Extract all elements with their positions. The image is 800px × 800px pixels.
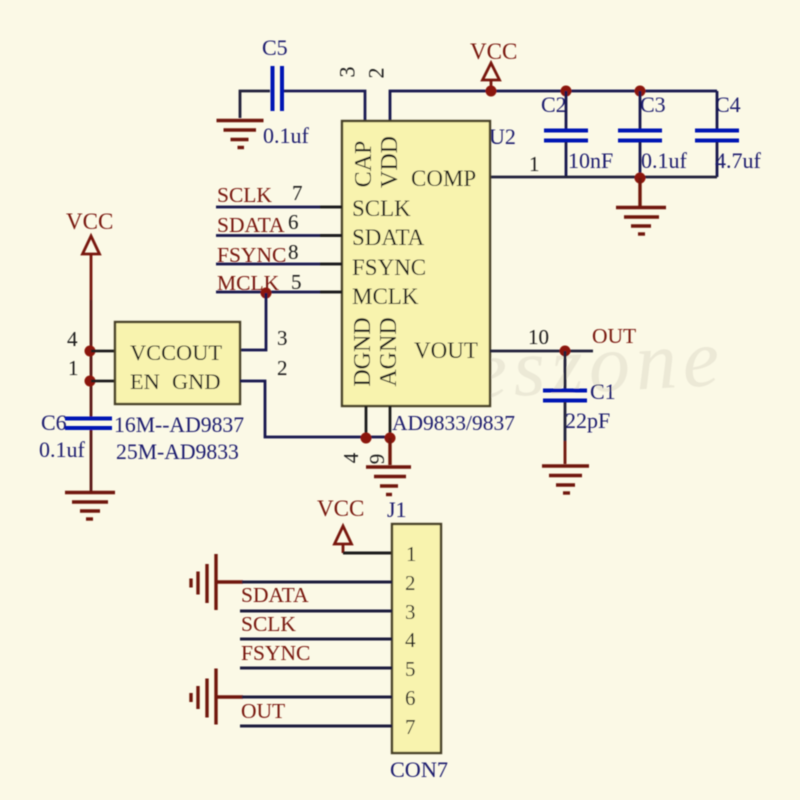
junction dot C3 top: [635, 86, 646, 97]
svg-text:C2: C2: [541, 92, 567, 117]
wire VCC to J1 pin1: [343, 552, 392, 555]
wire J1 pin7: [240, 725, 392, 728]
svg-text:AD9833/9837: AD9833/9837: [392, 411, 515, 435]
capacitor C5 plates: [273, 66, 283, 111]
VCC J1 power symbol: [335, 526, 352, 553]
wire J1 pin3: [240, 610, 392, 613]
wire C1 to ground: [564, 402, 567, 441]
wire FSYNC: [216, 263, 342, 266]
svg-text:VCCOUT: VCCOUT: [130, 340, 222, 365]
wire C5 left: [240, 91, 270, 118]
svg-text:VCC: VCC: [317, 496, 364, 521]
svg-text:C3: C3: [640, 92, 666, 117]
svg-text:FSYNC: FSYNC: [241, 641, 310, 665]
svg-text:2: 2: [277, 356, 288, 380]
VCC top power symbol: [483, 63, 500, 91]
wire VCCOUT pin2 to AGND: [240, 381, 390, 437]
wire AGND stub: [389, 406, 392, 437]
svg-text:9: 9: [365, 454, 389, 465]
wire C6 to ground: [90, 430, 93, 491]
wire VDD pin2 to top rail: [390, 91, 717, 121]
svg-text:C4: C4: [715, 92, 741, 117]
wire DGND stub: [365, 406, 368, 437]
svg-text:1: 1: [68, 356, 79, 380]
junction dot MCLK: [261, 288, 272, 299]
regulator body VCCOUT/EN/GND: [115, 322, 240, 404]
ground sideways 1: [191, 554, 243, 610]
svg-text:3: 3: [405, 600, 416, 624]
ground at C1: [542, 466, 589, 493]
wire VCC vertical: [90, 300, 93, 417]
junction dot AGND: [385, 433, 396, 444]
svg-text:25M-AD9833: 25M-AD9833: [116, 440, 239, 464]
svg-text:OUT: OUT: [241, 699, 285, 723]
svg-text:0.1uf: 0.1uf: [641, 148, 688, 173]
svg-text:C1: C1: [590, 379, 616, 404]
svg-text:6: 6: [405, 686, 416, 710]
svg-text:10: 10: [528, 325, 549, 349]
wire pin4 stub: [91, 350, 115, 353]
junction dot VCCOUT pin4: [85, 346, 96, 357]
op-amp U2 AD9833 body: [342, 121, 490, 406]
svg-text:7: 7: [292, 181, 303, 205]
svg-text:VCC: VCC: [470, 39, 517, 64]
ground at C5: [217, 121, 264, 148]
svg-text:EN: EN: [130, 369, 160, 394]
junction dot DGND: [361, 433, 372, 444]
capacitor C3: [618, 91, 662, 177]
svg-text:SDATA: SDATA: [241, 583, 309, 607]
wire pin1 stub: [91, 380, 115, 383]
wire C5 to pin3: [284, 91, 365, 121]
capacitor C6: [65, 419, 112, 429]
svg-text:SCLK: SCLK: [241, 612, 296, 636]
svg-text:4: 4: [339, 452, 363, 463]
capacitor C4: [695, 91, 739, 177]
capacitor C2: [544, 91, 588, 177]
svg-text:2: 2: [405, 571, 416, 595]
svg-text:OUT: OUT: [592, 324, 636, 348]
wire MCLK: [216, 291, 342, 294]
svg-text:0.1uf: 0.1uf: [263, 123, 310, 148]
svg-text:VCC: VCC: [66, 209, 113, 234]
junction dot C2 top: [561, 86, 572, 97]
svg-text:5: 5: [291, 270, 302, 294]
svg-text:3: 3: [277, 326, 288, 350]
svg-text:CON7: CON7: [390, 757, 448, 782]
wire MCLK to VCCOUT pin3: [240, 293, 266, 350]
wire VOUT to C1: [564, 351, 567, 389]
junction dot VCCOUT pin1: [85, 376, 96, 387]
svg-text:C5: C5: [262, 35, 288, 60]
svg-text:4: 4: [405, 628, 416, 652]
VCC left power symbol: [83, 236, 100, 300]
svg-text:8: 8: [288, 240, 299, 264]
junction dot VCC top rail: [486, 86, 497, 97]
svg-text:SDATA: SDATA: [217, 213, 285, 237]
wire J1 pin4: [240, 638, 392, 641]
svg-text:1: 1: [406, 542, 417, 566]
svg-text:VDD: VDD: [377, 136, 403, 188]
svg-text:7: 7: [405, 715, 416, 739]
connector J1 body: [392, 524, 441, 753]
wire SDATA: [216, 234, 342, 237]
svg-text:2: 2: [364, 68, 389, 79]
svg-text:U2: U2: [489, 124, 516, 149]
svg-text:4: 4: [67, 327, 78, 351]
svg-text:J1: J1: [387, 497, 407, 522]
svg-text:4.7uf: 4.7uf: [715, 148, 762, 173]
svg-text:COMP: COMP: [411, 166, 476, 191]
svg-text:3: 3: [335, 67, 360, 78]
wire SCLK: [216, 206, 342, 209]
wire COMP pin1 bottom rail: [490, 176, 717, 179]
wire J1 pin6: [242, 696, 392, 699]
svg-text:GND: GND: [172, 369, 221, 394]
ground sideways 2: [191, 669, 243, 725]
svg-text:VOUT: VOUT: [414, 338, 478, 363]
svg-text:C6: C6: [41, 410, 67, 435]
svg-text:MCLK: MCLK: [352, 284, 419, 309]
wire J1 pin2: [242, 581, 392, 584]
capacitor C1: [543, 391, 587, 401]
ground below U2: [366, 438, 411, 495]
wire VOUT pin10: [490, 350, 593, 353]
junction dot VOUT: [560, 346, 571, 357]
svg-text:SDATA: SDATA: [352, 225, 425, 250]
svg-text:DGND: DGND: [350, 317, 376, 386]
svg-text:6: 6: [288, 210, 299, 234]
svg-text:CAP: CAP: [351, 141, 377, 188]
svg-text:SCLK: SCLK: [217, 183, 272, 207]
junction dot C3 bottom: [635, 173, 646, 184]
svg-text:10nF: 10nF: [568, 148, 613, 173]
ground at C6: [65, 493, 115, 520]
svg-text:AGND: AGND: [376, 317, 402, 386]
svg-text:1: 1: [529, 152, 540, 176]
wire J1 pin5: [240, 667, 392, 670]
ground at C3: [616, 178, 666, 234]
svg-text:0.1uf: 0.1uf: [39, 437, 86, 462]
svg-text:22pF: 22pF: [565, 408, 610, 433]
svg-text:16M--AD9837: 16M--AD9837: [114, 413, 244, 437]
svg-text:FSYNC: FSYNC: [352, 255, 426, 280]
svg-text:SCLK: SCLK: [352, 196, 411, 221]
svg-text:5: 5: [405, 657, 416, 681]
